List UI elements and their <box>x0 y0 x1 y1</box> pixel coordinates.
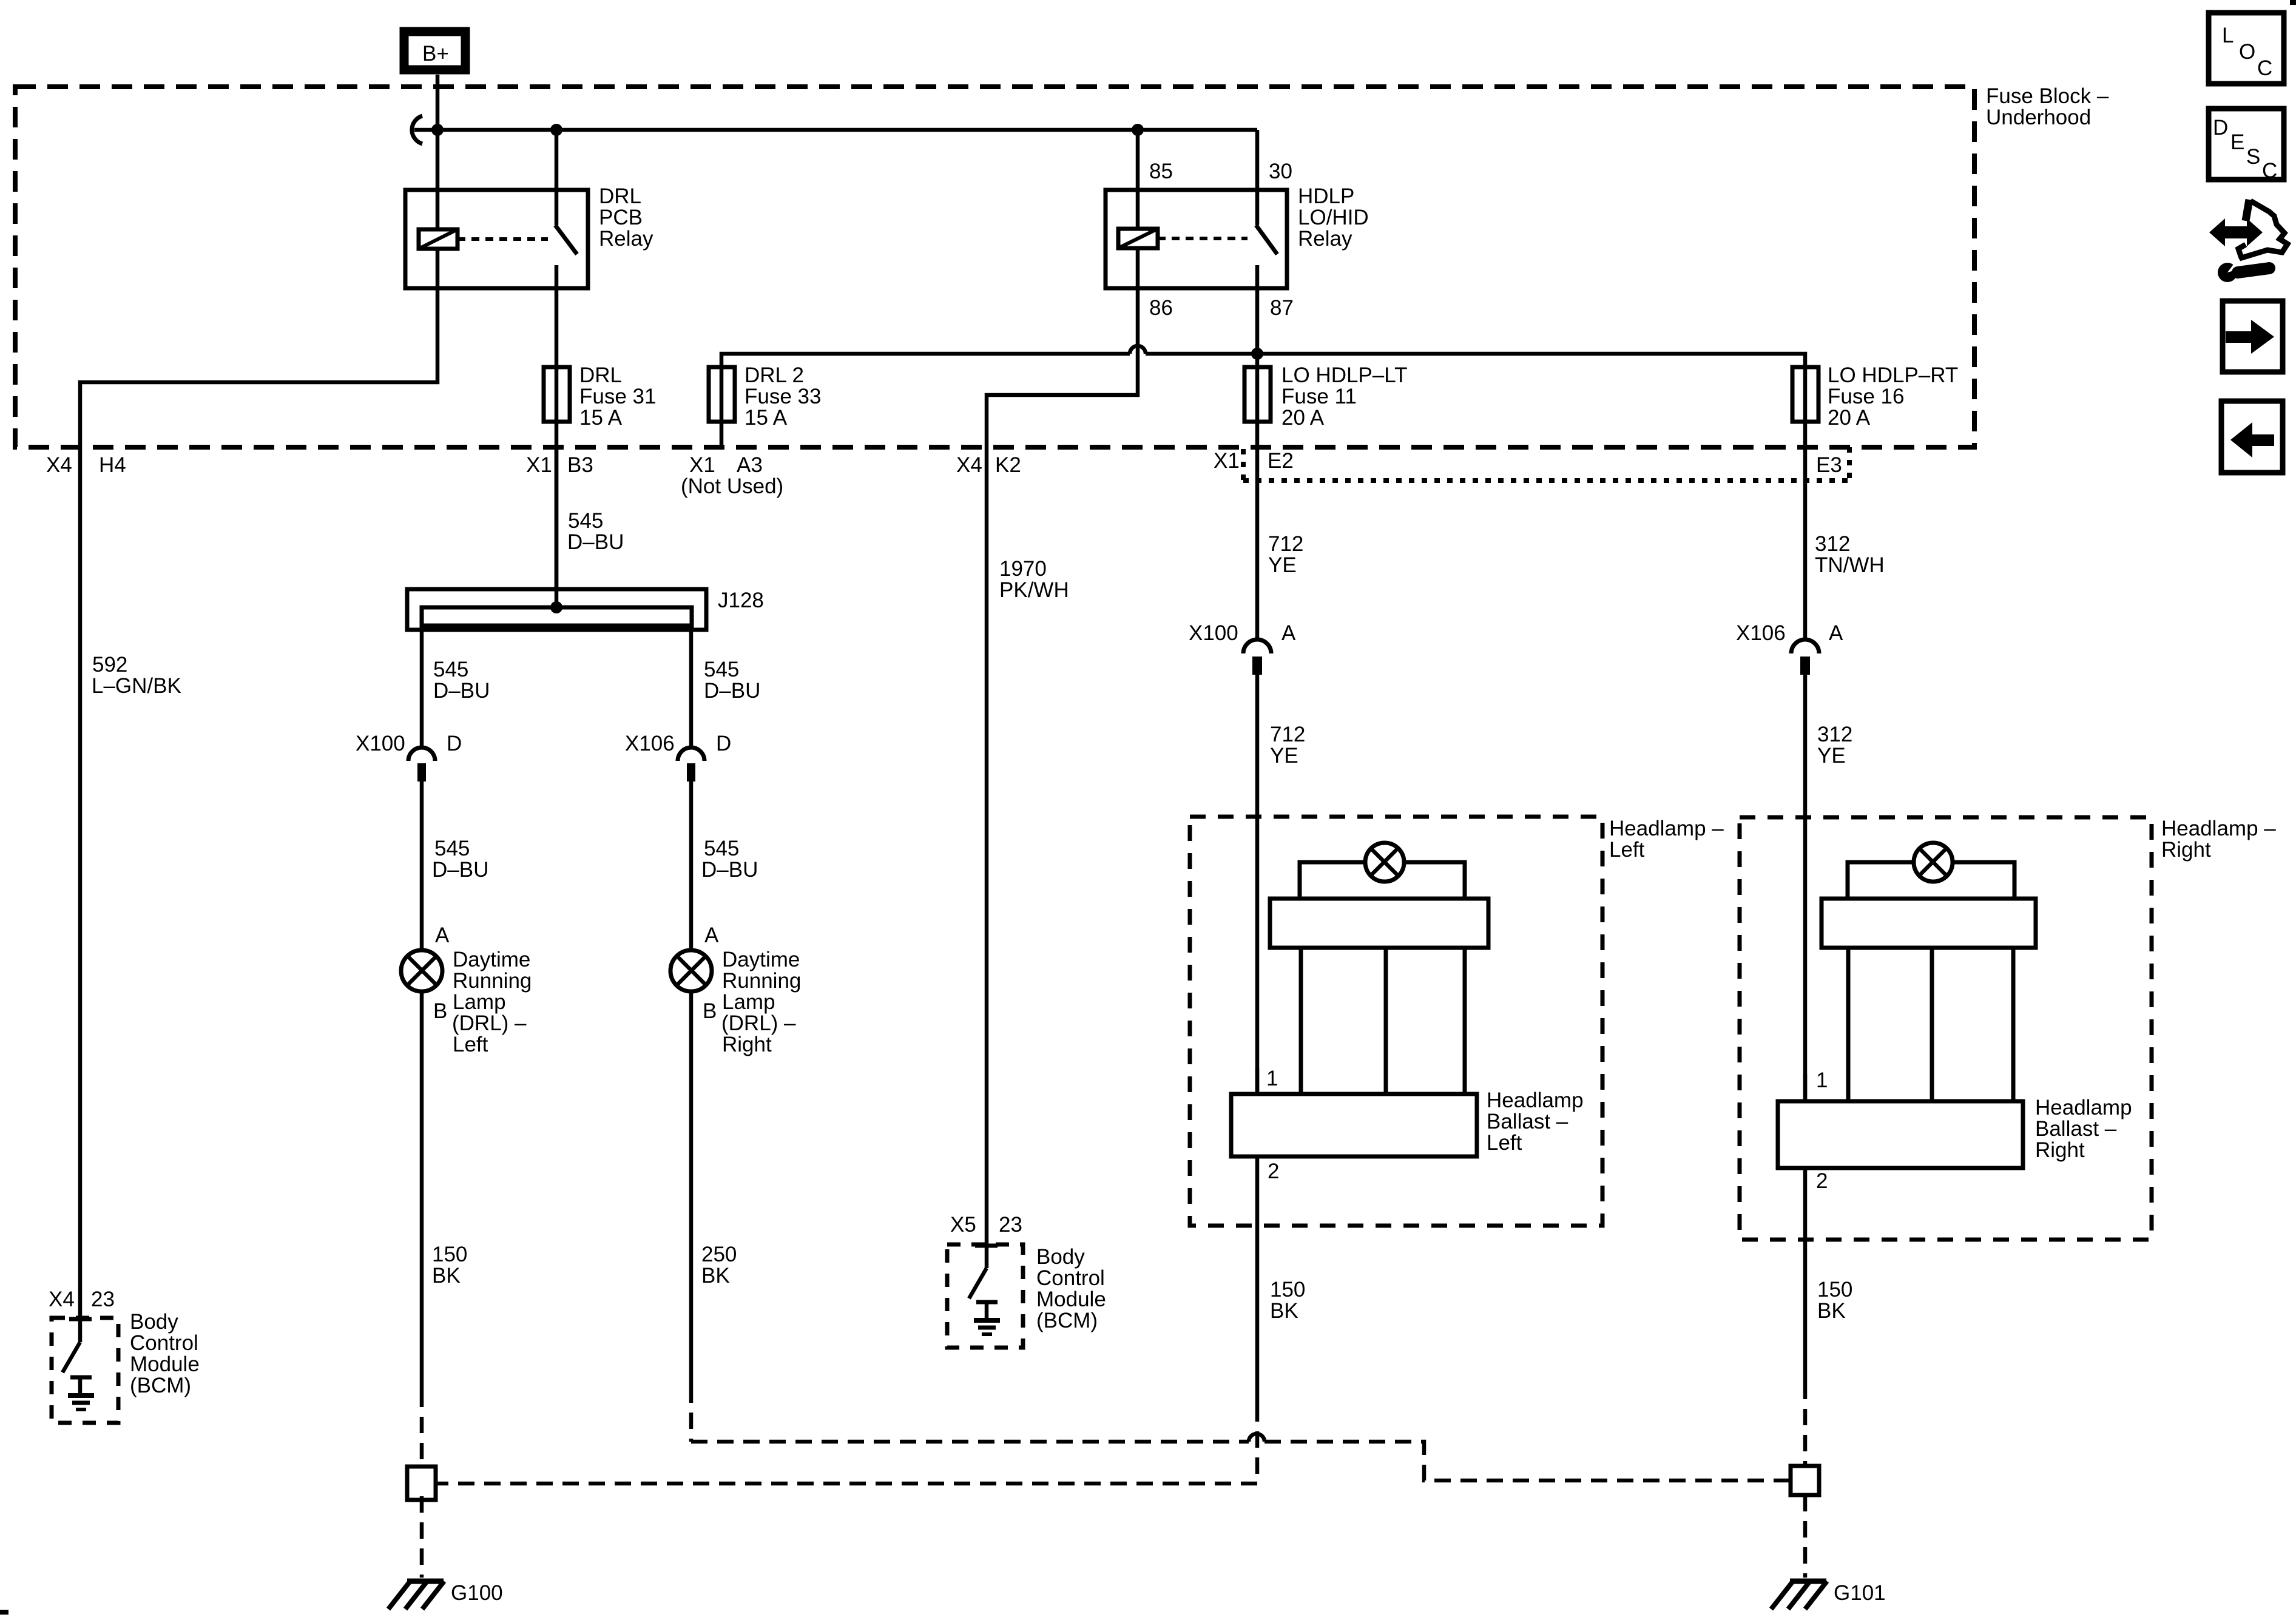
wire X106 D to right DRL lamp A <box>689 781 694 951</box>
wire left ballast pin 2 150 BK solid part <box>1255 1156 1260 1405</box>
wire right DRL lamp ground dashed with hop over left ballast wire <box>691 1386 1249 1442</box>
svg-text:Running: Running <box>722 969 801 993</box>
svg-text:312: 312 <box>1817 723 1852 746</box>
fuse DRL Fuse 31 15A <box>544 363 656 430</box>
wire label 545 D-BU below J128 right <box>704 658 760 703</box>
icon right arrow box <box>2223 301 2283 372</box>
node X1 E2 <box>1214 449 1294 473</box>
svg-text:Lamp: Lamp <box>453 990 506 1014</box>
svg-text:Fuse 31: Fuse 31 <box>579 385 656 408</box>
svg-text:Lamp: Lamp <box>722 990 775 1014</box>
svg-text:23: 23 <box>999 1213 1022 1237</box>
wire label 250 BK right lamp <box>701 1243 737 1288</box>
svg-text:X106: X106 <box>1736 621 1786 645</box>
svg-text:250: 250 <box>701 1243 737 1266</box>
fuse LO HDLP-RT Fuse 16 20A <box>1792 363 1958 430</box>
wire label 150 BK left lamp <box>432 1243 467 1288</box>
svg-text:(DRL) –: (DRL) – <box>452 1011 527 1035</box>
module Body Control Module BCM left <box>52 1310 200 1423</box>
svg-text:BK: BK <box>432 1264 461 1288</box>
svg-text:C: C <box>2262 159 2277 183</box>
svg-text:Relay: Relay <box>1298 227 1352 251</box>
wire label 545 D-BU above J128 <box>567 509 624 554</box>
wire HDLP relay coil pin 85/86 down, left, down through X4 K2 to BCM <box>987 130 1138 1244</box>
svg-text:Headlamp: Headlamp <box>1487 1089 1584 1112</box>
ballast Headlamp Ballast Right <box>1778 1096 2132 1168</box>
svg-text:X4: X4 <box>49 1288 75 1311</box>
wire label 545 D-BU above left lamp <box>432 837 488 882</box>
icon left arrow box <box>2221 401 2283 473</box>
svg-text:545: 545 <box>704 837 739 860</box>
svg-text:Daytime: Daytime <box>453 948 530 971</box>
lamp HID bulb left <box>1270 843 1488 1094</box>
node junction dot J128 <box>550 601 562 613</box>
svg-text:545: 545 <box>434 837 470 860</box>
svg-text:592: 592 <box>92 653 127 677</box>
svg-text:545: 545 <box>433 658 468 681</box>
wire B+ feed down through DRL relay coil, left to X4 H4, down to BCM <box>80 75 437 1318</box>
svg-text:Right: Right <box>722 1033 772 1056</box>
wire X100 D to left DRL lamp A <box>420 781 424 951</box>
svg-text:Ballast –: Ballast – <box>1487 1110 1568 1133</box>
svg-text:X1: X1 <box>526 453 552 477</box>
svg-text:D–BU: D–BU <box>701 858 758 882</box>
wire 312/150 from X106 A to right ballast pin 1 <box>1803 675 1808 1101</box>
svg-text:Left: Left <box>453 1033 488 1056</box>
svg-text:LO/HID: LO/HID <box>1298 206 1369 229</box>
svg-text:TN/WH: TN/WH <box>1815 553 1885 577</box>
wire label 150 BK right ballast <box>1817 1278 1852 1323</box>
svg-text:HDLP: HDLP <box>1298 184 1354 208</box>
svg-text:A: A <box>1829 621 1843 645</box>
node X4 K2 <box>956 453 1021 477</box>
svg-text:K2: K2 <box>995 453 1021 477</box>
svg-text:Module: Module <box>1036 1288 1106 1311</box>
svg-text:A: A <box>704 923 719 947</box>
module Body Control Module BCM middle <box>947 1244 1106 1348</box>
svg-text:30: 30 <box>1269 160 1292 183</box>
svg-text:Headlamp –: Headlamp – <box>1609 817 1724 840</box>
node X1 A3 not used <box>681 453 783 498</box>
svg-text:Right: Right <box>2161 838 2211 862</box>
lamp Daytime Running Lamp DRL Left <box>401 923 532 1056</box>
fuse block underhood dashed box <box>15 87 1974 447</box>
connector X1 dotted row between E2 and E3 <box>1243 447 1849 481</box>
svg-text:150: 150 <box>432 1243 467 1266</box>
svg-text:LO HDLP–RT: LO HDLP–RT <box>1828 363 1958 387</box>
svg-text:J128: J128 <box>718 589 764 612</box>
svg-text:Running: Running <box>453 969 532 993</box>
wire label 312 TN/WH <box>1815 532 1885 577</box>
svg-text:L–GN/BK: L–GN/BK <box>92 674 181 698</box>
wire dashed jog to G101 splice square <box>1264 1442 1791 1480</box>
connector curl at left end of B+ bus <box>412 116 422 144</box>
fuse block underhood label <box>1986 84 2109 129</box>
wire bus continues right then down through Fuse 16 and E3 to X106 A <box>1146 354 1805 640</box>
svg-text:15 A: 15 A <box>579 406 623 430</box>
svg-text:712: 712 <box>1268 532 1303 556</box>
redraw feed wire into right ballast <box>1803 1074 1808 1101</box>
wire J128 right output to X106 D <box>689 626 694 748</box>
svg-text:Daytime: Daytime <box>722 948 800 971</box>
wire label 712 YE lower <box>1270 723 1305 768</box>
svg-text:(BCM): (BCM) <box>1036 1309 1098 1332</box>
svg-text:150: 150 <box>1817 1278 1852 1301</box>
wire hop over pin 86 <box>1130 346 1146 354</box>
headlamp Left dashed box <box>1190 817 1724 1226</box>
lamp Daytime Running Lamp DRL Right <box>670 923 801 1056</box>
node junction dot pin 87 at fuse bus <box>1251 348 1263 360</box>
svg-text:X106: X106 <box>625 732 675 755</box>
wire 712 YE from X100 A to left ballast pin 1 <box>1255 675 1260 1094</box>
wire top B+ bus with curl end <box>414 128 1257 132</box>
svg-text:X100: X100 <box>356 732 405 755</box>
svg-text:G101: G101 <box>1834 1581 1886 1605</box>
svg-text:PK/WH: PK/WH <box>999 578 1069 602</box>
wire label 545 D-BU below J128 left <box>433 658 490 703</box>
svg-text:X1: X1 <box>1214 449 1240 473</box>
wire label 1970 PK/WH <box>999 557 1069 602</box>
svg-text:Left: Left <box>1487 1131 1522 1155</box>
svg-text:Body: Body <box>1036 1245 1085 1269</box>
node X1 B3 <box>526 453 593 477</box>
wire fuse output bus from Fuse 33 to Fuse 16 with hop over pin86 wire <box>721 354 1130 447</box>
connector X100 A <box>1189 621 1296 675</box>
node X4 H4 <box>46 453 126 477</box>
svg-text:D–BU: D–BU <box>567 530 624 554</box>
svg-text:E3: E3 <box>1816 453 1842 477</box>
svg-text:Fuse 11: Fuse 11 <box>1281 385 1357 408</box>
page artifact bottom left <box>0 1610 8 1615</box>
icon glove with arrows and wrench <box>2209 200 2288 282</box>
svg-text:2: 2 <box>1268 1160 1279 1183</box>
svg-text:1: 1 <box>1266 1067 1278 1090</box>
svg-text:Ballast –: Ballast – <box>2035 1117 2117 1141</box>
svg-text:D–BU: D–BU <box>432 858 488 882</box>
svg-text:312: 312 <box>1815 532 1850 556</box>
wire right DRL lamp B down 250 BK solid <box>689 990 694 1386</box>
svg-text:X4: X4 <box>956 453 982 477</box>
svg-text:A: A <box>1281 621 1296 645</box>
wire left DRL lamp B down 150 BK solid <box>420 990 424 1391</box>
redraw J128 feed and dot over white fill <box>555 447 559 607</box>
svg-text:E2: E2 <box>1268 449 1294 473</box>
relay HDLP LO/HID Relay <box>1106 184 1369 288</box>
svg-text:2: 2 <box>1816 1169 1828 1193</box>
svg-text:87: 87 <box>1270 296 1294 320</box>
icon LOC box <box>2209 13 2284 84</box>
svg-text:Relay: Relay <box>599 227 653 251</box>
svg-text:B+: B+ <box>422 42 449 66</box>
connector X106 A <box>1736 621 1843 675</box>
svg-text:15 A: 15 A <box>745 406 788 430</box>
svg-text:C: C <box>2257 56 2272 80</box>
svg-text:(DRL) –: (DRL) – <box>721 1011 796 1035</box>
headlamp Right dashed box <box>1740 817 2276 1240</box>
svg-text:20 A: 20 A <box>1281 406 1325 430</box>
svg-text:545: 545 <box>568 509 603 533</box>
svg-text:Headlamp –: Headlamp – <box>2161 817 2276 840</box>
svg-text:B3: B3 <box>567 453 593 477</box>
svg-text:E: E <box>2230 130 2244 154</box>
svg-text:1: 1 <box>1816 1068 1828 1092</box>
fuse DRL 2 Fuse 33 15A <box>709 363 821 430</box>
svg-text:DRL 2: DRL 2 <box>745 363 804 387</box>
svg-text:A3: A3 <box>737 453 763 477</box>
wire HDLP relay pin 30/87 down through Fuse 11 and X1 E2 to X100 A <box>1255 130 1260 640</box>
svg-text:PCB: PCB <box>599 206 643 229</box>
lamp HID bulb right <box>1822 843 2036 1101</box>
ballast Headlamp Ballast Left <box>1231 1089 1584 1156</box>
svg-text:Fuse 33: Fuse 33 <box>745 385 821 408</box>
wire left ballast ground dashed to G100 splice square <box>436 1405 1257 1484</box>
svg-text:545: 545 <box>704 658 739 681</box>
svg-text:D: D <box>2213 116 2228 140</box>
svg-text:Control: Control <box>1036 1266 1105 1290</box>
svg-text:BK: BK <box>1270 1299 1298 1323</box>
wire label 545 D-BU above right lamp <box>701 837 758 882</box>
wire DRL relay switch pin down through Fuse 31 to J128 <box>555 130 559 607</box>
svg-text:Left: Left <box>1609 838 1645 862</box>
svg-text:D–BU: D–BU <box>433 679 490 703</box>
icon DESC box <box>2209 109 2284 183</box>
svg-text:O: O <box>2239 40 2255 64</box>
node junction dot B+ bus at DRL coil <box>431 124 444 136</box>
svg-text:DRL: DRL <box>579 363 622 387</box>
splice square G100 branch <box>407 1467 436 1500</box>
svg-text:S: S <box>2246 145 2260 169</box>
svg-text:23: 23 <box>91 1288 115 1311</box>
wire right ballast pin 2 150 BK solid part <box>1803 1168 1808 1383</box>
svg-text:YE: YE <box>1817 744 1846 768</box>
svg-text:G100: G100 <box>451 1581 503 1605</box>
svg-text:20 A: 20 A <box>1828 406 1871 430</box>
svg-text:Body: Body <box>130 1310 178 1334</box>
svg-text:A: A <box>435 923 450 947</box>
redraw feed wire into left ballast <box>1255 1068 1260 1094</box>
svg-text:B: B <box>433 999 447 1023</box>
svg-text:Underhood: Underhood <box>1986 106 2091 129</box>
page artifact top right <box>2290 0 2296 5</box>
svg-text:X1: X1 <box>689 453 715 477</box>
svg-text:(Not Used): (Not Used) <box>681 474 783 498</box>
svg-text:X4: X4 <box>46 453 72 477</box>
svg-text:Fuse 16: Fuse 16 <box>1828 385 1904 408</box>
svg-text:YE: YE <box>1270 744 1298 768</box>
svg-text:712: 712 <box>1270 723 1305 746</box>
svg-text:85: 85 <box>1149 160 1173 183</box>
svg-text:Headlamp: Headlamp <box>2035 1096 2132 1119</box>
ground G100 <box>388 1581 503 1609</box>
node junction dot B+ bus at HDLP coil <box>1132 124 1144 136</box>
wire G101 splice square to G101 ground <box>1803 1495 1808 1578</box>
relay DRL PCB Relay <box>405 184 653 288</box>
splice square G101 branch <box>1791 1466 1819 1495</box>
fuse LO HDLP-LT Fuse 11 20A <box>1244 363 1408 430</box>
wire left DRL lamp ground dashed to splice square <box>420 1391 424 1467</box>
battery B+ terminal box <box>404 32 465 70</box>
svg-text:BK: BK <box>1817 1299 1846 1323</box>
node junction dot B+ bus at DRL switch <box>550 124 562 136</box>
svg-text:D: D <box>447 732 462 755</box>
wire G100 splice square down to G100 ground <box>420 1496 424 1578</box>
node X4 23 <box>49 1288 115 1311</box>
svg-text:Control: Control <box>130 1331 198 1355</box>
wire label 712 YE upper <box>1268 532 1303 577</box>
svg-text:H4: H4 <box>99 453 126 477</box>
svg-text:B: B <box>703 999 717 1023</box>
svg-text:LO HDLP–LT: LO HDLP–LT <box>1281 363 1408 387</box>
connector X100 D <box>356 732 462 781</box>
ground G101 <box>1771 1581 1886 1609</box>
wire right ballast ground dashed into G101 splice square <box>1803 1383 1808 1466</box>
svg-text:YE: YE <box>1268 553 1297 577</box>
node X5 23 <box>950 1213 1022 1237</box>
wire hop over left ballast ground wire <box>1249 1434 1264 1442</box>
svg-text:D: D <box>716 732 731 755</box>
connector X106 D <box>625 732 731 781</box>
wire label 150 BK left ballast <box>1270 1278 1305 1323</box>
svg-text:150: 150 <box>1270 1278 1305 1301</box>
svg-text:86: 86 <box>1149 296 1173 320</box>
svg-text:DRL: DRL <box>599 184 641 208</box>
svg-text:X5: X5 <box>950 1213 976 1237</box>
wire label 312 YE lower <box>1817 723 1852 768</box>
wire label 592 L-GN/BK <box>92 653 181 698</box>
svg-text:1970: 1970 <box>999 557 1047 581</box>
svg-text:D–BU: D–BU <box>704 679 760 703</box>
svg-text:X100: X100 <box>1189 621 1238 645</box>
svg-text:Module: Module <box>130 1352 200 1376</box>
splice J128 <box>407 589 706 630</box>
svg-text:(BCM): (BCM) <box>130 1374 191 1397</box>
svg-text:Right: Right <box>2035 1138 2085 1162</box>
svg-text:L: L <box>2222 24 2234 47</box>
wire J128 left output to X100 D <box>420 626 424 748</box>
svg-text:Fuse Block –: Fuse Block – <box>1986 84 2109 108</box>
svg-text:BK: BK <box>701 1264 730 1288</box>
